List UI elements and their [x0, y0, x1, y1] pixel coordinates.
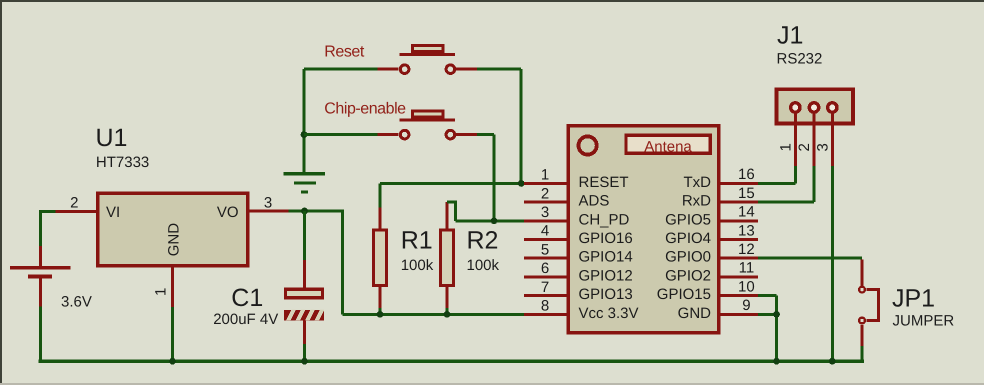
junction GND net at rail: [773, 358, 780, 365]
wire J1 pin2 to RxD: [758, 166, 816, 204]
svg-text:8: 8: [541, 298, 549, 315]
svg-text:3: 3: [264, 195, 272, 212]
module pin 2 stub (ADS): [524, 201, 569, 204]
svg-text:200uF 4V: 200uF 4V: [213, 311, 278, 328]
junction R2 at Vcc run: [444, 311, 451, 318]
svg-text:5: 5: [541, 241, 549, 258]
capacitor C1 negative plate (hatched): [284, 309, 332, 322]
push button Reset bar: [400, 53, 455, 56]
resistor R1 bottom stub: [379, 287, 382, 308]
push button Reset cap: [412, 46, 443, 52]
battery positive stub: [39, 246, 42, 266]
wire battery to U1 VI: [39, 210, 56, 213]
wire R2 top jog: [447, 201, 457, 221]
J1 pin 1 circle: [791, 103, 800, 112]
svg-text:ADS: ADS: [579, 193, 610, 210]
svg-text:1: 1: [152, 288, 169, 296]
svg-text:Antena: Antena: [644, 138, 692, 155]
U1 pin 3 stub (VO): [249, 210, 289, 213]
J1 pin 2 stub: [813, 114, 816, 167]
svg-text:CH_PD: CH_PD: [579, 211, 630, 228]
push button Reset left stub: [378, 68, 399, 71]
svg-text:3: 3: [814, 143, 831, 151]
svg-text:Chip-enable: Chip-enable: [324, 101, 406, 118]
module corner circle: [579, 136, 597, 154]
svg-text:100k: 100k: [401, 257, 434, 274]
svg-text:10: 10: [738, 278, 755, 295]
frame top edge: [0, 0, 984, 2]
svg-text:C1: C1: [231, 284, 263, 312]
module pin 8 stub (Vcc 3.3V): [524, 313, 569, 316]
svg-text:100k: 100k: [467, 257, 500, 274]
junction VO node: [301, 208, 308, 215]
svg-text:GPIO14: GPIO14: [579, 249, 633, 266]
push button Chip-enable right stub: [456, 133, 477, 136]
module pin 4 stub (GPIO16): [524, 238, 569, 241]
battery BAT 3.6V positive wire: [39, 212, 42, 247]
junction CH_PD net: [491, 217, 498, 224]
module pin 6 stub (GPIO12): [524, 275, 569, 278]
battery negative wire to ground rail: [39, 307, 42, 362]
junction U1 GND at rail: [169, 358, 176, 365]
svg-text:GPIO15: GPIO15: [657, 286, 711, 303]
svg-text:13: 13: [738, 222, 755, 239]
module pin 15 stub (RxD): [721, 201, 758, 204]
svg-text:2: 2: [70, 194, 78, 211]
push button Chip-enable right terminal: [446, 130, 455, 139]
wire JP1 bottom to ground rail: [861, 346, 864, 361]
junction GPIO15/GND: [773, 311, 780, 318]
wire C1 to ground rail: [303, 344, 306, 361]
svg-text:7: 7: [541, 279, 549, 296]
svg-text:GPIO13: GPIO13: [579, 286, 633, 303]
svg-text:RS232: RS232: [777, 51, 823, 68]
J1 pin 1 stub: [794, 114, 797, 167]
wire Vcc horizontal run to pin 8: [343, 313, 528, 316]
module pin 11 stub (GPIO2): [721, 275, 758, 278]
wire J1 pin3 to ground rail: [831, 166, 834, 361]
svg-text:1: 1: [777, 143, 794, 151]
svg-text:3: 3: [541, 204, 549, 221]
jumper JP1 top stub: [861, 260, 864, 287]
J1 pin 3 stub: [831, 114, 834, 167]
resistor R2 top stub: [446, 202, 449, 228]
resistor R1 body: [374, 230, 387, 286]
wire R1 bottom to Vcc run: [379, 308, 382, 314]
ground symbol: [284, 172, 326, 194]
svg-text:9: 9: [742, 297, 750, 314]
push button Reset right stub: [456, 68, 477, 71]
wire R1 top to RESET net: [379, 183, 382, 207]
wire GPIO15 down to GND net: [775, 296, 778, 362]
svg-text:RxD: RxD: [682, 193, 711, 210]
module Antena box: [626, 135, 710, 153]
capacitor C1 positive plate: [286, 289, 323, 298]
svg-text:GND: GND: [166, 223, 183, 257]
U1 pin 1 stub (GND): [171, 267, 174, 307]
J1 pin 2 circle: [809, 103, 818, 112]
wire J1 pin1 to TxD: [758, 166, 797, 185]
resistor R2 body: [441, 230, 454, 286]
wire GND pin9 right: [758, 313, 777, 316]
svg-text:GPIO5: GPIO5: [665, 211, 711, 228]
push button Chip-enable bar: [400, 119, 455, 122]
svg-text:JUMPER: JUMPER: [893, 313, 955, 330]
svg-text:GPIO4: GPIO4: [665, 230, 711, 247]
junction J1 pin3 at rail: [829, 358, 836, 365]
svg-text:HT7333: HT7333: [96, 154, 149, 171]
svg-text:VI: VI: [106, 204, 120, 221]
jumper JP1 bottom pin circle: [859, 318, 865, 324]
wire VO node down to Vcc run: [341, 211, 344, 314]
push button Chip-enable cap: [412, 111, 443, 117]
frame left edge: [0, 0, 2, 385]
svg-text:GPIO16: GPIO16: [579, 230, 633, 247]
svg-text:3.6V: 3.6V: [61, 294, 92, 311]
wire CH_PD net vertical: [493, 135, 496, 221]
svg-text:GPIO12: GPIO12: [579, 267, 633, 284]
J1 pin 3 circle: [828, 103, 837, 112]
wire R2 bottom to Vcc run: [446, 308, 449, 314]
wire ground rail bottom: [39, 359, 864, 363]
svg-text:Vcc 3.3V: Vcc 3.3V: [579, 305, 639, 322]
svg-text:14: 14: [738, 204, 755, 221]
svg-text:11: 11: [739, 260, 755, 277]
svg-text:GPIO0: GPIO0: [665, 249, 711, 266]
svg-text:U1: U1: [96, 124, 128, 152]
jumper JP1 top pin circle: [859, 287, 865, 293]
svg-text:GND: GND: [678, 305, 712, 322]
wire U1 GND to ground rail: [171, 307, 174, 361]
wire GPIO15 right: [758, 294, 777, 297]
module pin 16 stub (TxD): [721, 182, 758, 185]
svg-text:4: 4: [541, 223, 549, 240]
svg-text:16: 16: [738, 166, 755, 183]
svg-text:GPIO2: GPIO2: [665, 267, 711, 284]
battery positive plate: [10, 266, 71, 270]
svg-text:2: 2: [541, 185, 549, 202]
module pin 10 stub (GPIO15): [721, 294, 758, 297]
module U2 ESP body: [568, 126, 718, 333]
module pin 12 stub (GPIO0): [721, 257, 758, 260]
svg-text:12: 12: [738, 241, 755, 258]
module pin 13 stub (GPIO4): [721, 238, 758, 241]
capacitor C1 bottom stub: [303, 320, 306, 344]
junction buttons common: [301, 131, 308, 138]
U1 pin 2 stub (VI): [56, 210, 97, 213]
module pin 7 stub (GPIO13): [524, 294, 569, 297]
module pin 1 stub (RESET): [524, 182, 569, 185]
resistor R2 bottom stub: [446, 287, 449, 308]
svg-text:JP1: JP1: [892, 285, 935, 313]
module pin 5 stub (GPIO14): [524, 257, 569, 260]
wire Chip-enable right: [477, 133, 494, 136]
svg-text:1: 1: [541, 167, 549, 184]
voltage regulator U1 body: [98, 193, 248, 266]
svg-text:VO: VO: [217, 204, 239, 221]
wire U1 VO to node: [289, 210, 345, 213]
svg-text:J1: J1: [777, 21, 803, 49]
battery negative plate: [28, 274, 52, 278]
junction R1 at Vcc run: [377, 311, 384, 318]
push button Chip-enable left terminal: [400, 130, 409, 139]
battery negative stub: [39, 278, 42, 306]
jumper JP1 bracket: [866, 290, 878, 321]
capacitor C1 top stub: [303, 260, 306, 288]
wire Reset to RESET net: [477, 68, 521, 71]
connector J1 body: [777, 89, 854, 123]
module pin 14 stub (GPIO5): [721, 219, 758, 222]
wire ground to Reset button: [304, 68, 378, 71]
wire buttons common down: [303, 69, 306, 172]
push button Chip-enable left stub: [378, 133, 399, 136]
svg-text:RESET: RESET: [579, 174, 629, 191]
wire ground to Chip-enable button: [304, 133, 378, 136]
svg-text:Reset: Reset: [324, 44, 365, 61]
wire GPIO0 to JP1: [758, 257, 862, 260]
push button Reset left terminal: [400, 65, 409, 74]
svg-text:R1: R1: [401, 227, 433, 255]
module pin 9 stub (GND): [721, 313, 758, 316]
svg-text:R2: R2: [467, 227, 499, 255]
jumper JP1 bottom stub: [861, 325, 864, 346]
svg-text:2: 2: [796, 143, 813, 151]
junction C1 at rail: [301, 358, 308, 365]
svg-text:15: 15: [738, 185, 755, 202]
svg-text:TxD: TxD: [684, 174, 712, 191]
module pin 3 stub (CH_PD): [524, 219, 569, 222]
svg-text:6: 6: [541, 260, 549, 277]
push button Reset right terminal: [446, 65, 455, 74]
frame bottom edge: [0, 383, 984, 385]
junction RESET net: [518, 180, 525, 187]
resistor R1 top stub: [379, 208, 382, 229]
capacitor C1 top wire: [303, 211, 306, 260]
wire RESET net vertical: [520, 69, 523, 183]
wire CH_PD net horizontal: [456, 219, 528, 222]
